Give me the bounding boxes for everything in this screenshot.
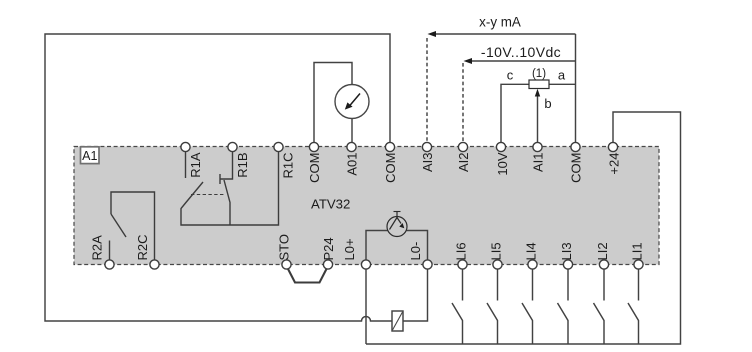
terminal LO+ [342, 238, 371, 269]
potentiometer (1) [501, 80, 576, 147]
jumper STO-P24 [287, 266, 329, 283]
terminal LI5 [489, 242, 504, 269]
terminal LI2 [595, 242, 610, 269]
switch on LI6 [452, 265, 463, 344]
terminal R2C [135, 234, 159, 269]
svg-text:AI3: AI3 [420, 153, 435, 173]
terminal A01 [345, 142, 360, 175]
wire LO+ riser to rail [365, 265, 367, 344]
svg-text:P24: P24 [321, 237, 336, 260]
svg-text:(1): (1) [532, 68, 546, 80]
svg-text:A01: A01 [345, 153, 360, 176]
label A1 box [81, 147, 100, 164]
svg-text:c: c [507, 68, 514, 83]
terminal P24 [321, 237, 336, 269]
relay contact R1 (R1A/R1B/R1C changeover) [181, 147, 279, 225]
svg-text:A1: A1 [82, 149, 97, 163]
terminal 10V [495, 142, 510, 175]
wire COM2 outer loop to relay (big left box) [45, 34, 392, 321]
analog output meter loop COM1-A01 [314, 63, 352, 148]
relay contact R2 (R2A/R2C) [110, 192, 155, 265]
svg-text:AI2: AI2 [456, 153, 471, 173]
svg-text:L0+: L0+ [342, 238, 357, 260]
svg-text:LI3: LI3 [559, 242, 574, 260]
terminal LI6 [454, 242, 469, 269]
svg-text:LI1: LI1 [630, 242, 645, 260]
svg-text:x-y mA: x-y mA [479, 14, 521, 29]
terminal AI2 [456, 142, 471, 172]
svg-text:STO: STO [277, 234, 292, 261]
svg-text:R1C: R1C [281, 153, 296, 179]
svg-text:b: b [544, 96, 551, 111]
svg-text:a: a [558, 68, 566, 83]
svg-text:ATV32: ATV32 [311, 197, 350, 212]
terminal LI3 [559, 242, 574, 269]
wire relay to LO- [403, 265, 428, 321]
svg-text:LI2: LI2 [595, 242, 610, 260]
svg-text:LI5: LI5 [489, 242, 504, 260]
transistor Q1 (open collector output LO+/LO-) [366, 212, 428, 266]
switch on LI3 [558, 265, 569, 344]
svg-text:+24: +24 [607, 153, 622, 175]
drive block A1 (ATV32) gray body [74, 147, 659, 265]
terminal R1B [228, 142, 250, 177]
terminal AI1 [531, 142, 546, 172]
terminal LO- [408, 242, 432, 269]
net x-y mA arrow into AI3 [427, 14, 576, 147]
terminal AI3 [420, 142, 435, 172]
terminal LI4 [524, 242, 539, 269]
switch on LI2 [594, 265, 605, 344]
svg-text:R2C: R2C [135, 234, 150, 260]
wire +24 to LI common rail [366, 112, 681, 344]
terminal COM (2nd) [383, 142, 398, 182]
terminal +24 [607, 142, 622, 174]
svg-text:L0-: L0- [408, 242, 423, 261]
terminal R2A [90, 235, 115, 269]
svg-text:R1B: R1B [235, 153, 250, 178]
svg-text:AI1: AI1 [531, 153, 546, 173]
terminal COM (3rd) [569, 142, 584, 182]
net -10V..10Vdc arrow into AI2 [463, 44, 576, 147]
terminal COM (1st) [307, 142, 322, 182]
terminal STO [277, 234, 292, 269]
svg-text:R2A: R2A [90, 235, 105, 261]
svg-text:R1A: R1A [188, 152, 203, 178]
relay coil KA (external relay on LO-) [392, 311, 403, 331]
svg-text:10V: 10V [495, 152, 510, 175]
terminal R1C [274, 142, 296, 178]
wire COM3 riser [575, 34, 577, 147]
svg-text:LI4: LI4 [524, 242, 539, 260]
terminal LI1 [630, 242, 645, 269]
switch on LI5 [487, 265, 498, 344]
switch on LI4 [522, 265, 533, 344]
svg-text:-10V..10Vdc: -10V..10Vdc [481, 44, 561, 60]
svg-text:COM: COM [569, 153, 584, 183]
meter M1 (galvanometer) [335, 85, 369, 119]
switch on LI1 [628, 265, 639, 344]
svg-text:COM: COM [307, 153, 322, 183]
svg-text:COM: COM [383, 153, 398, 183]
terminal R1A [181, 142, 203, 177]
svg-text:LI6: LI6 [454, 242, 469, 260]
